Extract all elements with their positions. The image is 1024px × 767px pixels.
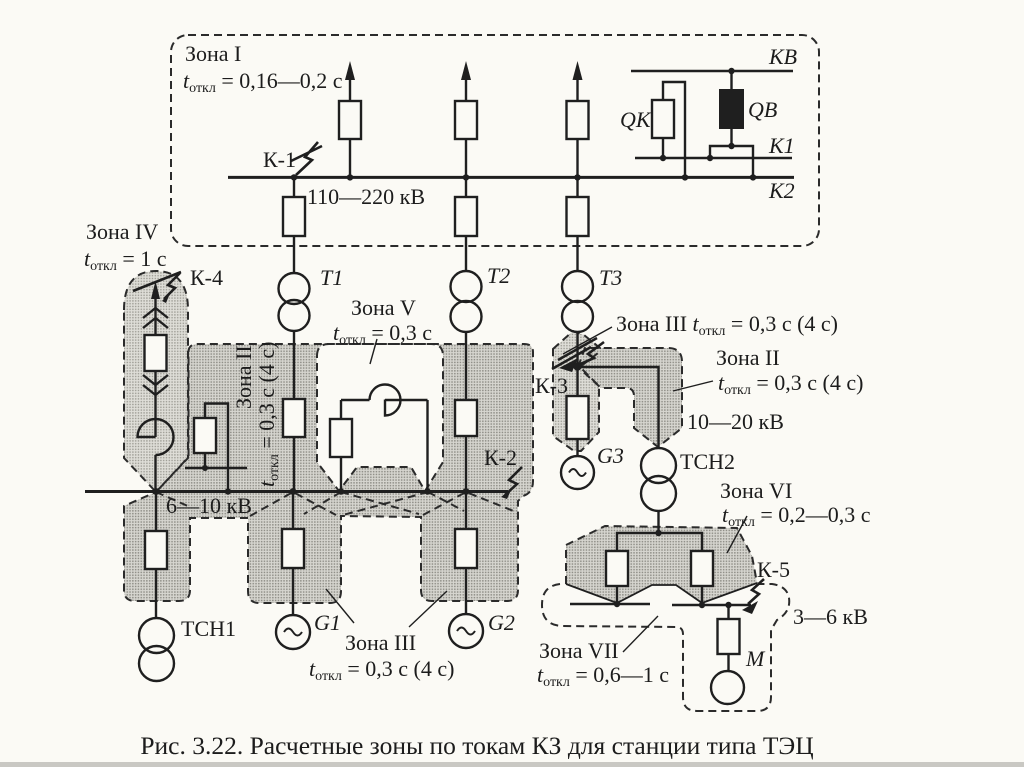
fault K-4 bolt [133, 272, 181, 299]
svg-text:10—20 кВ: 10—20 кВ [687, 409, 784, 434]
VT rect [194, 418, 216, 453]
breaker TCH1 [145, 531, 167, 569]
zone IV boundary [124, 271, 188, 492]
svg-text:110—220 кВ: 110—220 кВ [307, 184, 425, 209]
breaker QK [652, 100, 674, 138]
zone V top wire [341, 399, 370, 401]
breaker feeder3 [567, 101, 589, 139]
node feeder1 on bus [347, 174, 353, 180]
svg-text:QK: QK [620, 107, 652, 132]
bus 6-10 kV [85, 490, 508, 493]
G2 wire [465, 492, 467, 529]
svg-text:Рис. 3.22. Расчетные зоны по т: Рис. 3.22. Расчетные зоны по токам КЗ дл… [140, 731, 813, 760]
node feeder3 on bus [574, 174, 580, 180]
breaker zone V [330, 419, 352, 457]
node TCH2 split [655, 530, 661, 536]
svg-text:Зона II: Зона II [716, 345, 780, 370]
svg-text:Т1: Т1 [320, 265, 343, 290]
svg-text:ТСН1: ТСН1 [181, 616, 236, 641]
node K-3 junction [573, 362, 581, 370]
step link wire [710, 146, 753, 177]
split bar wire [617, 533, 702, 551]
zone IV capsule fill [124, 271, 188, 492]
fault K-1 bolt [291, 142, 322, 175]
junction pinch dashes zone V right [343, 492, 464, 515]
pointer zone V [370, 339, 377, 364]
breaker T1 top [283, 197, 305, 236]
zone VI boundary [566, 526, 757, 584]
svg-text:Т3: Т3 [599, 265, 622, 290]
arrow feeder2 [461, 61, 471, 80]
svg-text:Зона II: Зона II [231, 345, 256, 409]
svg-text:ТСН2: ТСН2 [680, 449, 735, 474]
node zoneV left bus [338, 488, 344, 494]
node VT bus [225, 488, 231, 494]
arrow feeder3 [573, 61, 583, 80]
zone V boundary [317, 344, 443, 491]
transformer T2 [451, 271, 482, 302]
node G1 bus [290, 488, 297, 495]
central zone II + bus band + zone III lobes fill [124, 344, 533, 603]
node left drop bus [614, 601, 620, 607]
TCH1 wire [155, 492, 157, 531]
10-20 kV wire [578, 367, 659, 448]
KB line [631, 70, 793, 72]
svg-text:Зона III: Зона III [345, 630, 416, 655]
breaker zone IV [145, 335, 167, 371]
node TCH1 bus [153, 488, 160, 495]
reactor L2 [370, 384, 401, 415]
generator G2 [449, 614, 483, 648]
fault K-5 bolt [748, 579, 764, 604]
zone VI blob fill [566, 526, 757, 603]
svg-text:М: М [745, 646, 766, 671]
svg-text:Зона VII: Зона VII [539, 638, 619, 663]
TCH2 lower wire [657, 511, 659, 533]
svg-text:К2: К2 [768, 178, 795, 203]
breaker feeder1 [339, 101, 361, 139]
T3 branch wire [576, 177, 578, 197]
node K1 step [707, 155, 713, 161]
svg-text:G3: G3 [597, 443, 624, 468]
node QB step [728, 143, 734, 149]
fault K-2 bolt [505, 467, 522, 495]
breaker QB [720, 90, 743, 128]
junction pinch dashes G2 [423, 492, 516, 515]
svg-text:G1: G1 [314, 610, 341, 635]
node K1-QK [660, 155, 666, 161]
breaker G2 [455, 529, 477, 568]
node M bus [725, 602, 731, 608]
svg-text:G2: G2 [488, 610, 515, 635]
breaker zone VI left [606, 551, 628, 586]
svg-text:Т2: Т2 [487, 263, 510, 288]
bus 110-220 kV [228, 176, 794, 179]
T2 branch wire [465, 177, 467, 197]
zone V white window [317, 344, 443, 491]
svg-text:Зона VI: Зона VI [720, 478, 792, 503]
G1 wire [292, 492, 294, 529]
transformer T1 [279, 273, 310, 304]
svg-text:Зона IV: Зона IV [86, 219, 158, 244]
junction pinch dash TCH1 right [156, 492, 190, 507]
zone II hook band fill [578, 348, 682, 447]
zone III lobe around G3 fill [553, 331, 600, 451]
zone V right wire [426, 400, 428, 491]
svg-text:К-3: К-3 [535, 373, 568, 398]
arrow K-4 feeder [151, 281, 160, 299]
svg-text:КВ: КВ [768, 44, 797, 69]
zone II / III boundary [124, 344, 533, 603]
motor M [711, 671, 744, 704]
zone VI left drop [616, 586, 618, 604]
svg-text:6—10 кВ: 6—10 кВ [166, 493, 252, 518]
transformer TCH1 [139, 618, 174, 653]
breaker G1 [282, 529, 304, 568]
breaker zone VI right [691, 551, 713, 586]
node KB-QB [728, 68, 734, 74]
node K2 loop [682, 174, 688, 180]
QK wire [663, 82, 685, 177]
node K-1 on bus [291, 174, 297, 180]
K1 line [635, 157, 792, 159]
M wire [727, 605, 729, 619]
breaker T2 bottom [455, 400, 477, 436]
node zoneV right bus [424, 488, 430, 494]
chevrons down [143, 375, 168, 395]
transformer T3 [562, 271, 593, 302]
chevrons up [143, 308, 168, 328]
transformer TCH2 [641, 448, 676, 483]
svg-text:Зона V: Зона V [351, 295, 416, 320]
svg-text:К-1: К-1 [263, 147, 296, 172]
pointer zone VI [727, 516, 747, 553]
G3 wire [576, 367, 578, 396]
generator G3 [561, 456, 594, 489]
breaker feeder2 [455, 101, 477, 139]
pointer zone II right [673, 381, 713, 391]
breaker T2 top [455, 197, 477, 236]
K-4 feeder wire [154, 292, 156, 335]
fault K-3 bolt [576, 342, 604, 366]
feeder 2 wire [465, 72, 467, 101]
pointer zone III bottom right [409, 591, 447, 627]
node right drop bus [699, 602, 705, 608]
svg-text:К-5: К-5 [757, 557, 790, 582]
feeder 3 wire [576, 72, 578, 101]
svg-text:К-4: К-4 [190, 265, 223, 290]
feeder 1 wire [349, 72, 351, 101]
QB wire [730, 71, 732, 90]
breaker T1 bottom [283, 399, 305, 437]
node feeder2 on bus [463, 174, 469, 180]
zone VII boundary [542, 584, 789, 711]
svg-text:3—6 кВ: 3—6 кВ [793, 604, 868, 629]
zone V left wire [340, 457, 342, 491]
zone III G3 boundary [553, 331, 600, 451]
node VT bar [202, 465, 208, 471]
svg-text:К1: К1 [768, 133, 795, 158]
svg-text:К-2: К-2 [484, 445, 517, 470]
fault K-3 slashes [552, 338, 597, 369]
breaker G3 [567, 396, 589, 439]
T1 branch wire [293, 177, 295, 197]
pointer zone VII [623, 616, 658, 652]
zone I boundary [171, 35, 819, 246]
svg-text:QB: QB [748, 97, 777, 122]
node G2 bus [463, 488, 470, 495]
reactor L1 [138, 419, 174, 455]
node K2 step [750, 174, 756, 180]
svg-text:Зона I: Зона I [185, 41, 241, 66]
generator G1 [276, 615, 310, 649]
bottom edge strip [0, 762, 1024, 767]
svg-text:Зона III tоткл = 0,3 с (4 с): Зона III tоткл = 0,3 с (4 с) [616, 311, 838, 339]
zone VI solid lower border [566, 583, 757, 603]
breaker T3 top [567, 197, 589, 236]
arrow feeder1 [345, 61, 355, 80]
junction pinch dashes zone V left [304, 492, 419, 514]
VT bottom bar [185, 467, 247, 469]
bus 3-6 kV left section [570, 603, 650, 605]
pointer zone III top [563, 327, 612, 354]
VT wire [205, 404, 228, 492]
breaker M [718, 619, 740, 654]
pointer zone III bottom left [326, 589, 354, 623]
bus 3-6 kV right section [672, 604, 751, 606]
zone VI right drop [701, 586, 703, 605]
junction pinch dashes G1 [250, 492, 336, 516]
zone II hook boundary [578, 348, 682, 447]
